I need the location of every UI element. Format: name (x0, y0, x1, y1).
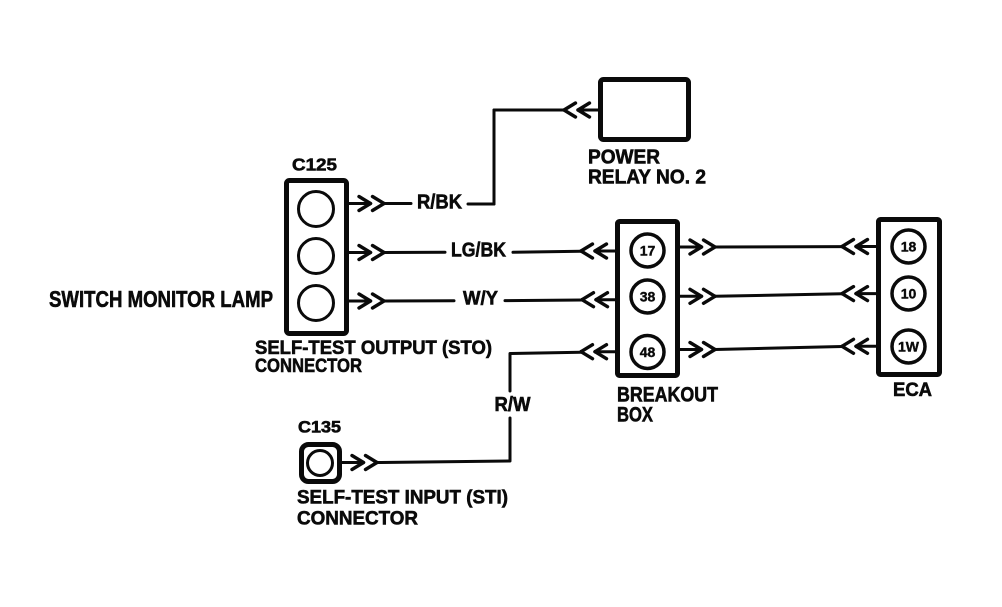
svg-text:10: 10 (901, 286, 917, 302)
wire R/W vertical upper segment (509, 354, 512, 392)
wire LG/BK right segment (513, 251, 581, 252)
svg-text:R/BK: R/BK (417, 192, 463, 214)
wire W/Y right segment (505, 299, 582, 303)
arrow into ECA pin 1W (856, 345, 876, 348)
svg-text:W/Y: W/Y (463, 289, 498, 310)
ECA pin 10 (892, 277, 925, 310)
svg-text:R/W: R/W (495, 394, 531, 416)
wire R/BK segment (384, 202, 411, 205)
wire breakout 38 to ECA 10 (715, 294, 842, 297)
svg-text:18: 18 (901, 239, 917, 255)
arrow out of C135 (342, 461, 364, 464)
wire W/Y left segment (384, 299, 454, 302)
svg-text:1W: 1W (898, 339, 920, 355)
wire R/BK to corner (468, 203, 494, 206)
arrow out of C125 pin 2 (349, 251, 371, 254)
svg-text:CONNECTOR: CONNECTOR (255, 355, 362, 377)
svg-text:C135: C135 (298, 418, 341, 437)
svg-text:SWITCH MONITOR LAMP: SWITCH MONITOR LAMP (49, 286, 273, 312)
C125 pin 1 (299, 192, 334, 227)
svg-text:LG/BK: LG/BK (451, 240, 506, 262)
breakout pin 38 (631, 280, 664, 313)
wire breakout 17 to ECA 18 (715, 245, 842, 248)
breakout box (618, 222, 678, 376)
ECA pin 18 (892, 230, 925, 263)
arrow out of breakout pin 48 (680, 348, 702, 351)
arrow into power relay (578, 109, 598, 112)
wire C135 to R/W vertical (377, 461, 510, 463)
wire R/W vertical lower segment (509, 418, 512, 460)
arrow out of C125 pin 3 (349, 300, 371, 303)
connector C135 (self-test input) box (302, 445, 340, 482)
svg-text:BOX: BOX (617, 404, 653, 427)
svg-text:POWER: POWER (588, 147, 661, 169)
arrow out of C125 pin 1 (349, 202, 371, 205)
svg-text:17: 17 (640, 243, 656, 259)
arrow into breakout pin 17 (595, 250, 615, 253)
breakout pin 17 (631, 234, 664, 267)
arrow into breakout pin 48 from R/W (595, 350, 615, 353)
C125 pin 3 (299, 286, 334, 321)
connector C125 (self-test output) box (287, 181, 347, 334)
ECA pin 1W (892, 330, 925, 363)
C125 pin 2 (299, 239, 334, 274)
svg-text:48: 48 (640, 344, 656, 360)
svg-text:CONNECTOR: CONNECTOR (297, 508, 418, 530)
ECA box (879, 220, 940, 375)
svg-text:RELAY NO. 2: RELAY NO. 2 (588, 167, 706, 189)
arrow out of breakout pin 38 (680, 295, 702, 298)
wire R/W horizontal top (511, 352, 581, 353)
wire R/BK vertical (493, 110, 496, 204)
arrow into ECA pin 18 (856, 245, 876, 248)
arrow out of breakout pin 17 (680, 246, 702, 249)
relay box POWER RELAY NO. 2 (601, 80, 689, 140)
C135 pin (308, 451, 333, 476)
svg-text:38: 38 (640, 289, 656, 305)
svg-text:ECA: ECA (893, 379, 932, 401)
svg-text:SELF-TEST INPUT (STI): SELF-TEST INPUT (STI) (297, 487, 508, 509)
wire breakout 48 to ECA 1W (715, 347, 842, 350)
arrow into ECA pin 10 (856, 292, 876, 295)
arrow into breakout pin 38 (596, 298, 616, 301)
wire LG/BK left segment (384, 251, 445, 254)
breakout pin 48 (631, 336, 664, 369)
svg-text:C125: C125 (292, 155, 337, 175)
